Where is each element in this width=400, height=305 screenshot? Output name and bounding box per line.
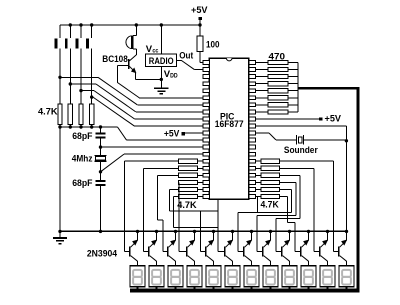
svg-text:Out: Out <box>179 51 194 62</box>
svg-text:+5V: +5V <box>191 5 208 16</box>
svg-text:RADIO: RADIO <box>149 56 174 67</box>
svg-text:4.7K: 4.7K <box>177 200 196 211</box>
svg-text:4.7K: 4.7K <box>261 200 279 211</box>
svg-text:BC108: BC108 <box>102 54 128 65</box>
svg-text:+5V: +5V <box>325 113 342 124</box>
svg-text:4Mhz: 4Mhz <box>72 153 93 164</box>
svg-text:cc: cc <box>152 47 158 54</box>
svg-text:+5V: +5V <box>164 129 180 140</box>
svg-text:68pF: 68pF <box>72 178 92 189</box>
svg-text:Sounder: Sounder <box>284 145 318 156</box>
svg-text:4.7K: 4.7K <box>38 106 58 117</box>
svg-text:68pF: 68pF <box>72 131 92 142</box>
svg-text:16F877: 16F877 <box>215 119 244 130</box>
svg-text:100: 100 <box>206 40 220 51</box>
svg-text:2N3904: 2N3904 <box>87 249 118 260</box>
svg-text:DD: DD <box>170 73 178 80</box>
svg-text:470: 470 <box>269 51 286 62</box>
